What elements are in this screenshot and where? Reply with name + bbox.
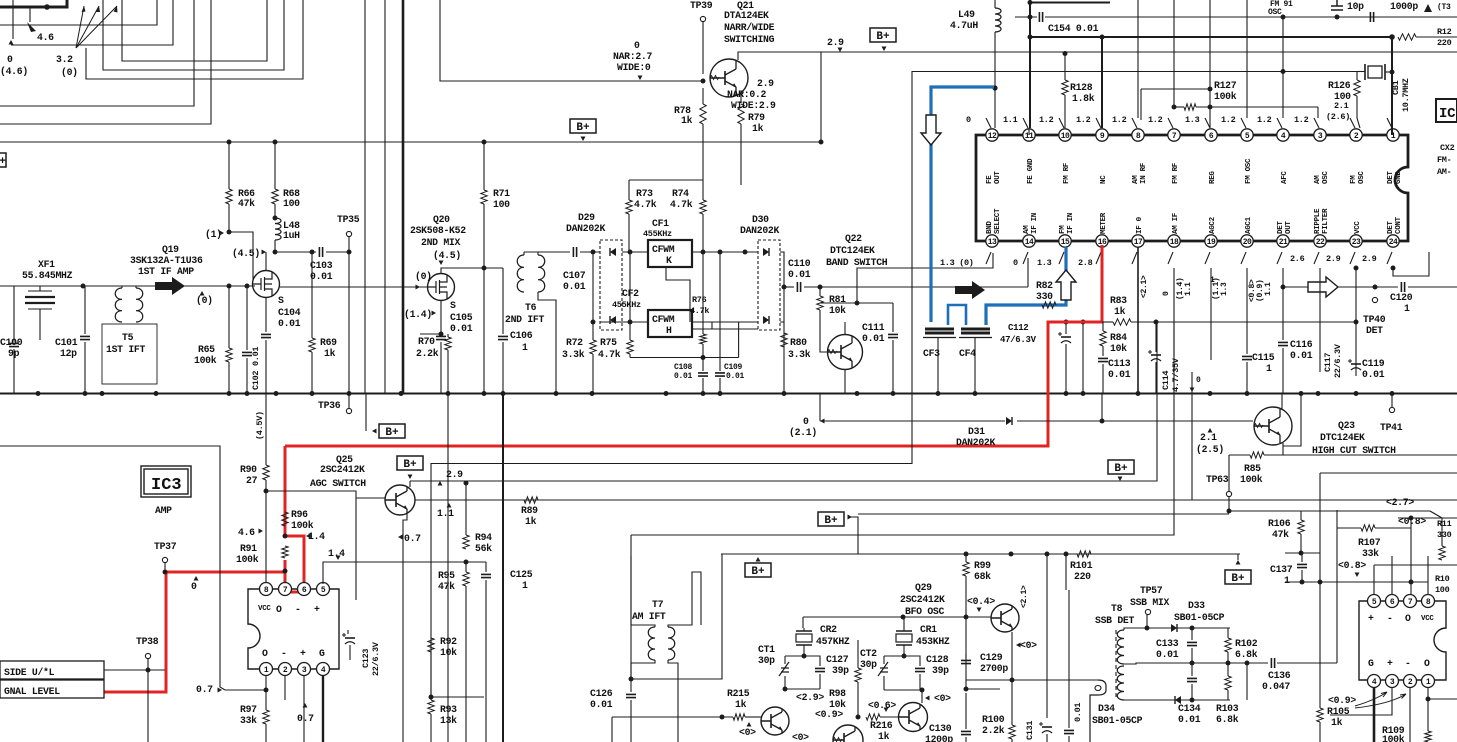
svg-text:B+: B+	[876, 31, 890, 43]
svg-text:5: 5	[1245, 132, 1250, 141]
svg-text:2SK508-K52: 2SK508-K52	[410, 225, 466, 236]
svg-text:2.9: 2.9	[827, 37, 844, 48]
svg-text:C119: C119	[1362, 358, 1385, 369]
junction on main bus	[1245, 391, 1250, 396]
pin tick	[986, 252, 991, 264]
svg-text:VCC: VCC	[258, 605, 271, 613]
svg-text:R82: R82	[1036, 280, 1053, 291]
wire	[1277, 662, 1337, 664]
svg-text:(0): (0)	[415, 271, 432, 282]
junction	[964, 552, 969, 557]
wire	[483, 252, 485, 268]
svg-text:T5: T5	[122, 332, 134, 343]
pin tick	[1023, 252, 1028, 264]
wire	[702, 22, 704, 74]
diode D30b	[763, 316, 769, 324]
junction on main bus	[590, 391, 595, 396]
svg-text:R95: R95	[438, 570, 455, 581]
svg-text:AFC: AFC	[1281, 171, 1289, 184]
capacitor C101	[80, 336, 90, 339]
wire x=266 rail	[265, 393, 267, 465]
wire	[431, 696, 484, 698]
junction on main bus	[1316, 391, 1321, 396]
resistor R74	[702, 180, 704, 200]
svg-text:AMP: AMP	[155, 505, 172, 516]
svg-text:2SC2412K: 2SC2412K	[320, 464, 365, 475]
svg-text:33k: 33k	[1362, 548, 1379, 559]
capacitor C106 plates	[502, 268, 504, 334]
transistor Q20 mosfet	[428, 274, 455, 301]
svg-text:CF2: CF2	[622, 288, 639, 299]
wire	[802, 617, 804, 628]
transistor Q21	[710, 59, 748, 97]
svg-text:CX2: CX2	[1440, 143, 1455, 153]
connector box SIGNAL LEVEL	[0, 680, 104, 698]
svg-text:2.9: 2.9	[1362, 254, 1377, 264]
svg-text:NAR:2.7: NAR:2.7	[613, 51, 652, 62]
svg-text:CR1: CR1	[920, 624, 937, 635]
arrow	[303, 703, 308, 708]
wire CF3 down	[937, 338, 939, 393]
junction on main bus	[1208, 391, 1213, 396]
wire	[1140, 89, 1142, 120]
svg-text:100k: 100k	[194, 355, 217, 366]
diode D33	[1171, 624, 1177, 632]
resistor R100	[1011, 680, 1013, 725]
wire T8 mid row	[1124, 663, 1268, 664]
pin 21 IC2	[1277, 235, 1289, 247]
wire	[880, 716, 899, 718]
capacitor C137	[1301, 553, 1303, 562]
rail y=357.5	[630, 357, 739, 359]
svg-text:4: 4	[321, 666, 326, 675]
svg-text:+: +	[300, 648, 306, 659]
capacitor C100	[9, 343, 19, 346]
svg-text:FM: FM	[1059, 225, 1067, 234]
svg-text:0.7: 0.7	[297, 713, 314, 724]
svg-text:AM IF: AM IF	[1172, 212, 1180, 234]
wire	[274, 240, 276, 252]
svg-text:BND: BND	[986, 221, 994, 234]
arrow	[747, 722, 752, 727]
svg-text:AM IFT: AM IFT	[632, 611, 666, 622]
pin 19 IC2	[1205, 235, 1217, 247]
resistor R65	[228, 286, 230, 348]
capacitor C107	[573, 247, 576, 257]
svg-text:C104: C104	[278, 307, 301, 318]
arrow	[820, 419, 825, 424]
svg-text:SB01-05CP: SB01-05CP	[1174, 612, 1225, 623]
svg-text:(0): (0)	[196, 295, 213, 306]
svg-text:DAN202K: DAN202K	[566, 223, 605, 234]
resistor R89	[524, 497, 538, 503]
wire	[1282, 17, 1284, 70]
wire IC3 pin1 bottom	[225, 689, 266, 691]
junction on main bus	[973, 391, 978, 396]
pin 23 IC2	[1350, 235, 1362, 247]
arrow	[838, 48, 843, 53]
wire	[740, 124, 742, 185]
wire pin1 down	[1427, 687, 1429, 731]
svg-text:4.7/35V: 4.7/35V	[1171, 357, 1181, 392]
svg-text:0.7: 0.7	[404, 533, 421, 544]
junction	[819, 140, 824, 145]
wire D31 line y=421	[820, 420, 1005, 422]
wire thick top-left bus	[0, 0, 67, 7]
arrow	[581, 137, 586, 142]
wire y=473 upper right	[1320, 472, 1457, 474]
junction on main bus	[399, 391, 404, 396]
arrow	[262, 250, 267, 255]
resistor R78	[700, 104, 706, 124]
svg-text:TP57: TP57	[1140, 585, 1163, 596]
svg-text:T6: T6	[525, 302, 537, 313]
svg-text:D31: D31	[968, 426, 985, 437]
arrow	[408, 475, 413, 480]
IC2 label box (right edge)	[1436, 99, 1457, 122]
svg-text:3: 3	[1390, 678, 1395, 687]
wire	[785, 655, 804, 657]
svg-text:1.3: 1.3	[1220, 282, 1229, 296]
svg-text:R128: R128	[1070, 82, 1093, 93]
svg-text:C114: C114	[1161, 371, 1171, 390]
arrow	[220, 231, 225, 236]
wire <0.8> arrow top	[1374, 564, 1457, 566]
svg-text:<0>: <0>	[1020, 640, 1037, 651]
wire pin5 vertical	[1246, 0, 1248, 118]
wire	[1228, 455, 1230, 491]
svg-text:0.01: 0.01	[590, 699, 613, 710]
svg-text:220: 220	[1074, 571, 1091, 582]
pin 2 IC2	[1350, 129, 1362, 141]
svg-text:7: 7	[1408, 598, 1413, 607]
svg-text:1: 1	[1426, 678, 1431, 687]
svg-text:+: +	[1387, 658, 1393, 669]
resistor R106	[1300, 511, 1302, 520]
wire	[692, 321, 758, 323]
svg-text:FILTER: FILTER	[1322, 208, 1330, 234]
svg-text:0: 0	[1162, 291, 1171, 296]
junction on main bus	[1136, 391, 1141, 396]
svg-text:10p: 10p	[1347, 1, 1364, 12]
wire pin14 net	[1027, 258, 1029, 287]
pin tick	[986, 118, 991, 128]
pin 16 IC2	[1096, 235, 1108, 247]
capacitor C116	[1282, 268, 1284, 340]
wire	[265, 724, 267, 742]
capacitor C134	[1191, 663, 1193, 676]
test point TP38	[145, 653, 150, 658]
svg-text:-: -	[1405, 658, 1411, 669]
svg-text:CONT: CONT	[1395, 216, 1403, 234]
svg-text:2.9: 2.9	[757, 78, 774, 89]
svg-text:R216: R216	[870, 720, 893, 731]
arrow	[1118, 477, 1123, 482]
junction	[1064, 552, 1069, 557]
svg-text:20: 20	[1243, 238, 1252, 247]
pin 13 IC2	[986, 235, 998, 247]
B+ supply line y=142	[0, 141, 821, 143]
wire	[356, 497, 385, 499]
svg-text:(1): (1)	[205, 229, 222, 240]
wire	[857, 690, 859, 717]
junction on main bus	[36, 391, 41, 396]
pin 1 IC3	[260, 663, 273, 676]
ceramic filter CF1 CFWM K	[648, 240, 692, 267]
svg-text:1: 1	[522, 580, 528, 591]
main bus wire y=393	[0, 393, 1457, 395]
svg-text:AM: AM	[1132, 175, 1140, 184]
capacitor C114	[1155, 322, 1157, 352]
svg-text:0.01: 0.01	[1073, 703, 1083, 722]
svg-text:R106: R106	[1268, 518, 1291, 529]
wire x=484/486 lower	[485, 600, 487, 742]
svg-text:4: 4	[1281, 132, 1286, 141]
svg-text:1.1: 1.1	[437, 508, 454, 519]
wire R85 line	[1229, 454, 1250, 456]
svg-text:R91: R91	[240, 543, 257, 554]
wire CF2 row	[600, 321, 648, 323]
svg-text:O: O	[1405, 613, 1411, 624]
pin 9 IC2	[1096, 129, 1108, 141]
wire CT1 bottom	[785, 688, 820, 690]
svg-text:CFWM: CFWM	[652, 314, 675, 325]
svg-text:DTC124EK: DTC124EK	[1320, 432, 1365, 443]
svg-text:4.7k: 4.7k	[634, 199, 657, 210]
wire	[39, 309, 41, 340]
svg-text:C127: C127	[826, 654, 849, 665]
wire	[483, 142, 485, 185]
pin tick	[1168, 252, 1173, 264]
pin 7 IC3	[279, 583, 292, 596]
wire	[483, 268, 485, 393]
svg-text:+: +	[314, 604, 320, 615]
svg-text:BAND SWITCH: BAND SWITCH	[826, 257, 888, 268]
wire thick x=503 lower	[502, 393, 504, 742]
svg-text:5: 5	[1372, 598, 1377, 607]
capacitor C124	[485, 562, 487, 572]
resistor R98	[857, 640, 859, 668]
resistor R129 on y=37	[1398, 34, 1416, 40]
svg-text:IC3: IC3	[151, 476, 182, 495]
svg-text:2ND MIX: 2ND MIX	[421, 237, 460, 248]
wire CB1 right to x=1392 thick	[1385, 71, 1392, 73]
test point TP57	[1145, 609, 1150, 614]
inductor L49	[995, 8, 1001, 32]
svg-text:C111: C111	[862, 322, 885, 333]
svg-text:WIDE:2.9: WIDE:2.9	[731, 100, 776, 111]
Q21 collector wire	[738, 52, 1457, 60]
resistor R85	[1250, 452, 1264, 458]
svg-text:CF1: CF1	[652, 218, 669, 229]
svg-text:TP38: TP38	[136, 636, 159, 647]
svg-text:S: S	[278, 295, 284, 306]
svg-text:R97: R97	[240, 704, 257, 715]
svg-text:(4.5): (4.5)	[232, 248, 260, 259]
svg-text:68k: 68k	[974, 571, 991, 582]
svg-text:15: 15	[1061, 238, 1070, 247]
wire	[1319, 473, 1321, 582]
svg-text:R71: R71	[493, 188, 510, 199]
wire	[884, 689, 922, 691]
capacitor 1000p	[1370, 12, 1373, 22]
svg-text:1.2: 1.2	[1257, 115, 1272, 125]
svg-text:C112: C112	[1008, 323, 1028, 333]
svg-text:VCC: VCC	[1421, 615, 1434, 623]
wire L48 to C103	[275, 251, 316, 253]
capacitor C104	[265, 297, 267, 332]
arrow	[194, 576, 199, 581]
junction on main bus	[936, 391, 941, 396]
pin tick	[1205, 252, 1210, 264]
svg-text:3: 3	[302, 666, 307, 675]
pin 12 IC2	[986, 129, 998, 141]
wire	[465, 600, 467, 742]
wire	[1101, 393, 1103, 421]
junction on main bus	[1064, 391, 1069, 396]
svg-text:Q29: Q29	[915, 582, 932, 593]
wire	[1410, 518, 1412, 528]
svg-text:100k: 100k	[1382, 734, 1405, 742]
test point TP37	[162, 557, 167, 562]
svg-text:1.2: 1.2	[1148, 115, 1163, 125]
wire pin19 down	[1210, 268, 1212, 360]
svg-text:SIDE U/*L: SIDE U/*L	[4, 667, 55, 678]
test point TP39	[700, 16, 705, 21]
box wire around Q25	[266, 491, 356, 600]
svg-text:CF4: CF4	[959, 348, 976, 359]
junction on main bus	[310, 391, 315, 396]
wire	[1017, 420, 1253, 422]
svg-text:2SC2412K: 2SC2412K	[900, 594, 945, 605]
arrow	[447, 503, 452, 508]
wire	[1441, 518, 1443, 546]
capacitor C103	[319, 247, 322, 257]
wire CB1 to R126	[1356, 72, 1358, 81]
svg-text:C126: C126	[590, 688, 613, 699]
svg-text:27: 27	[246, 475, 258, 486]
junction node Q21 base	[701, 79, 706, 84]
wire	[803, 645, 805, 656]
resistor R80	[781, 333, 787, 347]
junction	[429, 695, 434, 700]
svg-text:100k: 100k	[1240, 474, 1263, 485]
wire pin23 down	[1355, 268, 1357, 376]
svg-text:VCC: VCC	[1354, 221, 1362, 234]
svg-text:R80: R80	[790, 337, 807, 348]
transistor Q27	[833, 725, 863, 742]
junction	[1190, 626, 1195, 631]
pin tick	[1059, 118, 1064, 128]
svg-text:(2.1): (2.1)	[789, 427, 817, 438]
svg-text:1k: 1k	[681, 115, 693, 126]
wire pin8 up	[1427, 556, 1429, 595]
svg-text:<0>: <0>	[934, 693, 951, 704]
wire meter line y=322	[1102, 321, 1113, 323]
pin 6 IC4	[1386, 595, 1399, 608]
red wire pin7 stub	[285, 560, 304, 592]
wire T8 top row	[1124, 628, 1230, 630]
svg-text:R69: R69	[320, 337, 337, 348]
svg-text:0.01: 0.01	[1290, 350, 1313, 361]
svg-text:-: -	[281, 648, 287, 659]
svg-text:Q19: Q19	[162, 244, 179, 255]
svg-text:8: 8	[1426, 598, 1431, 607]
resistor R69	[311, 252, 313, 338]
svg-text:0.7: 0.7	[196, 684, 213, 695]
svg-text:56k: 56k	[475, 543, 492, 554]
svg-text:8: 8	[264, 586, 269, 595]
svg-text:O: O	[1424, 658, 1430, 669]
wire pin8	[1137, 0, 1139, 118]
svg-text:1: 1	[522, 342, 528, 353]
svg-text:4.6: 4.6	[238, 527, 255, 538]
svg-text:B+: B+	[576, 122, 590, 134]
svg-text:SWITCHING: SWITCHING	[724, 34, 775, 45]
resistor R96 (under red)	[282, 512, 288, 526]
svg-text:<0.4>: <0.4>	[967, 596, 995, 607]
svg-text:L49: L49	[958, 9, 975, 20]
svg-text:R215: R215	[727, 688, 750, 699]
svg-text:C108: C108	[674, 363, 693, 372]
svg-text:2.9: 2.9	[446, 469, 463, 480]
svg-text:R72: R72	[566, 337, 583, 348]
wire R94 branch	[465, 481, 467, 487]
ceramic filter CF3	[925, 329, 954, 333]
svg-text:13k: 13k	[440, 715, 457, 726]
blue wire CF4 to pin15 with R82	[986, 247, 1066, 325]
svg-text:1: 1	[1404, 303, 1410, 314]
junction	[273, 140, 278, 145]
capacitor C105	[440, 300, 442, 334]
wire pin13 net	[857, 253, 993, 303]
svg-text:C113: C113	[1108, 358, 1131, 369]
svg-text:6: 6	[1390, 598, 1395, 607]
svg-text:IF IN: IF IN	[1031, 213, 1039, 234]
arrow	[336, 556, 341, 561]
junction	[1145, 626, 1150, 631]
svg-text:12p: 12p	[60, 348, 77, 359]
svg-text:R79: R79	[748, 112, 765, 123]
svg-text:FM-: FM-	[1437, 155, 1451, 165]
resistor R72	[590, 340, 596, 354]
test point TP41	[1389, 407, 1394, 412]
svg-text:0: 0	[803, 416, 809, 427]
svg-text:10k: 10k	[440, 647, 457, 658]
svg-text:<0.8>: <0.8>	[1338, 560, 1366, 571]
crystal filter XF1	[22, 297, 55, 303]
junction	[44, 4, 50, 10]
IC3 label box	[141, 466, 191, 497]
wire	[1045, 16, 1457, 18]
wire	[86, 0, 303, 79]
capacitor C128	[904, 656, 920, 666]
transistor Q19 mosfet	[253, 271, 280, 298]
svg-text:1.8k: 1.8k	[1072, 93, 1095, 104]
resistor R73	[628, 180, 630, 200]
svg-text:3.2: 3.2	[56, 54, 73, 65]
ceramic filter CF2 CFWM H	[648, 310, 692, 337]
pin 3 IC3	[298, 663, 311, 676]
pin 10 IC2	[1059, 129, 1071, 141]
pin 18 IC2	[1168, 235, 1180, 247]
svg-text:(2.6): (2.6)	[1326, 112, 1350, 122]
transistor Q29	[991, 604, 1019, 632]
wire	[430, 652, 432, 700]
svg-text:C105: C105	[450, 312, 473, 323]
svg-text:2.9: 2.9	[1326, 254, 1341, 264]
pin 6 IC3	[298, 583, 311, 596]
